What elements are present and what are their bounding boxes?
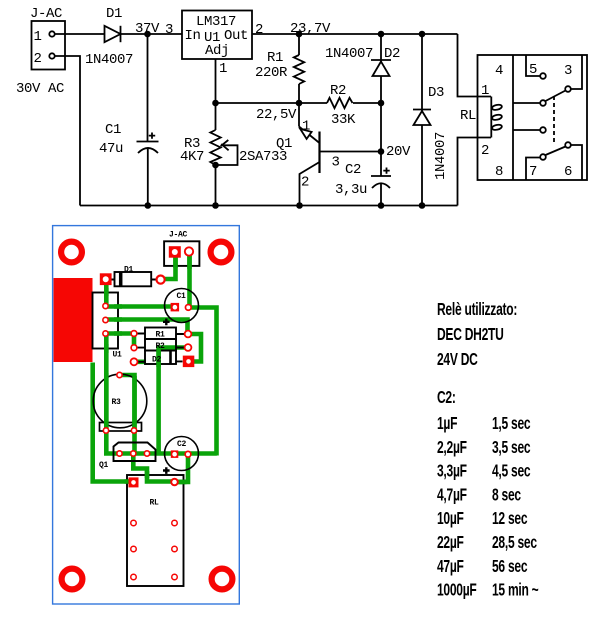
svg-text:4: 4: [495, 63, 503, 79]
svg-text:3,3u: 3,3u: [335, 182, 367, 198]
wire pin1 to D1: [55, 33, 105, 35]
diode D1: [105, 26, 121, 42]
capacitor C1 curved plate: [138, 148, 158, 153]
svg-text:1N4007: 1N4007: [85, 52, 133, 68]
svg-text:1µF: 1µF: [437, 414, 457, 434]
svg-text:R2: R2: [330, 83, 346, 99]
node D2 bottom: [378, 100, 385, 107]
capacitor C1 plus sign: [149, 133, 155, 139]
mounting hole top-left: [61, 242, 82, 263]
relay pin 5 bracket: [526, 55, 540, 76]
svg-text:RL: RL: [460, 108, 476, 124]
svg-text:In: In: [185, 28, 201, 44]
svg-text:Q1: Q1: [99, 461, 109, 470]
mounting hole top-right: [211, 242, 232, 263]
trace left rail to RL square: [93, 363, 134, 482]
svg-text:4,5 sec: 4,5 sec: [492, 461, 531, 481]
trace C1 to right rail: [188, 308, 217, 456]
pin 2 circle: [49, 53, 54, 58]
svg-text:20V: 20V: [386, 144, 411, 160]
svg-text:3: 3: [564, 63, 572, 79]
svg-text:C2: C2: [177, 440, 187, 449]
svg-text:24V DC: 24V DC: [437, 350, 478, 370]
transistor Q1 base wire: [320, 151, 382, 153]
trace R1 left to R2 left: [132, 334, 137, 349]
trace overlay RL entries: [125, 471, 187, 482]
svg-text:22,5V: 22,5V: [256, 107, 297, 123]
svg-text:47u: 47u: [99, 141, 123, 157]
wire C1 bottom: [147, 148, 149, 205]
silk C2 circle: [165, 437, 199, 471]
pad J-AC round: [185, 247, 193, 255]
svg-text:C2:: C2:: [437, 388, 456, 408]
node rail Q1: [296, 202, 303, 209]
node D3 top: [419, 31, 426, 38]
pad R3 top: [117, 372, 122, 377]
pad RL square: [129, 477, 139, 487]
resistor R2 zigzag: [327, 98, 353, 108]
pad J-AC square: [169, 246, 181, 258]
svg-text:2,2µF: 2,2µF: [437, 438, 467, 458]
svg-text:33K: 33K: [331, 112, 356, 128]
connector J-AC box: [32, 21, 66, 70]
wire C1 top: [147, 34, 149, 142]
svg-text:Out: Out: [224, 28, 248, 44]
node rail R3: [212, 202, 219, 209]
svg-text:1: 1: [34, 29, 42, 45]
svg-text:30V AC: 30V AC: [16, 81, 64, 97]
silk RL box: [127, 475, 184, 586]
potentiometer R3 wiper: [216, 145, 238, 165]
trace D1 to U1.1: [104, 279, 109, 307]
silk R3 tab: [100, 423, 142, 432]
capacitor C2 plus plate: [371, 175, 391, 177]
pad area red rectangle: [54, 278, 93, 362]
pad D1 square: [100, 273, 112, 285]
svg-text:220R: 220R: [255, 65, 288, 81]
node adj: [212, 100, 219, 107]
svg-text:2: 2: [481, 143, 489, 159]
resistor R3 leads: [215, 103, 217, 206]
svg-text:R1: R1: [156, 331, 166, 340]
silk J-AC box: [164, 241, 199, 266]
silk R3 circle: [93, 374, 147, 428]
pad RL round top: [171, 479, 178, 486]
svg-text:8: 8: [495, 164, 503, 180]
pad C1 square: [171, 303, 180, 312]
silk R1 box: [145, 328, 176, 340]
node R3 wiper: [212, 162, 219, 169]
pcb board outline: [53, 226, 240, 604]
svg-text:2SA733: 2SA733: [239, 149, 287, 165]
svg-text:J-AC: J-AC: [30, 6, 62, 22]
transistor Q1 emitter wire: [298, 103, 300, 127]
svg-text:1: 1: [219, 61, 227, 77]
silk D1 band: [119, 272, 123, 286]
node rail C1: [145, 202, 152, 209]
silk D2 band: [169, 351, 172, 365]
diode D2: [380, 34, 382, 103]
svg-text:2: 2: [34, 51, 42, 67]
node emitter: [296, 100, 303, 107]
trace U1.2 to R1 right: [105, 320, 188, 335]
relay pin 6 lead: [571, 145, 582, 180]
silk C1 circle: [165, 289, 199, 323]
node rail C2: [378, 202, 385, 209]
wire C2 top: [380, 103, 382, 176]
pads U1: [103, 303, 108, 308]
relay pin 3 lead: [571, 55, 582, 89]
svg-text:D2: D2: [152, 356, 162, 365]
svg-text:2: 2: [301, 175, 309, 191]
trace R3 top to R3 bottom and Q1.2: [118, 375, 135, 455]
trace Q1.2 jog to RL: [133, 454, 174, 482]
svg-text:D3: D3: [428, 85, 444, 101]
svg-text:28,5 sec: 28,5 sec: [492, 533, 537, 553]
pad D2 square: [183, 356, 195, 368]
node 23,7V: [296, 31, 303, 38]
transistor Q1 emitter arrow: [300, 129, 311, 139]
svg-text:4K7: 4K7: [180, 149, 204, 165]
pads Q1: [117, 451, 122, 456]
capacitor C1 plus plate: [137, 141, 159, 143]
relay pole 2 lead: [513, 129, 540, 131]
mounting hole bottom-right: [212, 569, 233, 590]
trace R1 right to D2 square: [189, 334, 202, 362]
svg-text:3,3µF: 3,3µF: [437, 461, 467, 481]
pad C2 round: [185, 451, 191, 457]
svg-text:12 sec: 12 sec: [492, 509, 528, 529]
svg-text:D1: D1: [106, 6, 122, 22]
node 37V: [144, 31, 151, 38]
svg-text:7: 7: [529, 164, 537, 180]
trace J-AC.1 to D1: [161, 252, 176, 280]
trace U1.1 to C1+: [105, 304, 176, 309]
trace U1.3 to R1 left: [105, 331, 137, 336]
relay coil RL: [490, 97, 492, 138]
trace R2 right drop to Q1.3: [159, 348, 188, 453]
trace overlay U1 exits: [106, 288, 122, 353]
diode D3: [421, 34, 423, 206]
svg-text:1,5 sec: 1,5 sec: [492, 414, 531, 434]
pad holes: [172, 249, 178, 255]
pad C2 square: [171, 450, 179, 458]
svg-text:R3: R3: [112, 398, 122, 407]
pads R1: [131, 331, 137, 337]
svg-text:C1: C1: [177, 292, 187, 301]
capacitor C2 plus sign: [383, 168, 389, 174]
silk lead stubs R1 R2 D2: [138, 333, 185, 336]
wire bottom rail: [80, 205, 458, 207]
svg-text:1: 1: [481, 83, 489, 99]
wire relay pin1 drop: [458, 34, 492, 97]
wire C2 bottom: [380, 183, 382, 205]
pin 1 circle: [49, 31, 54, 36]
trace overlay R2 drop through D2 box: [156, 349, 161, 368]
silk C2 plus: [163, 467, 170, 474]
regulator U1 LM317 box: [182, 11, 252, 60]
pads R2: [131, 345, 137, 351]
svg-text:1N4007: 1N4007: [325, 46, 373, 62]
trace D2 left stub: [134, 359, 146, 364]
relay contact circles: [540, 73, 546, 79]
relay contact box: [478, 55, 588, 180]
silk D2 box: [145, 351, 176, 365]
silk C1 plus: [163, 319, 170, 326]
trace emitter band: [104, 451, 217, 456]
svg-text:1N4007: 1N4007: [433, 132, 449, 180]
relay armature arms: [546, 91, 566, 102]
trace J-AC.2 to C1: [187, 252, 192, 308]
wire D1 cathode to LM317 In: [121, 33, 183, 35]
svg-text:3,5 sec: 3,5 sec: [492, 438, 531, 458]
relay pole 1 lead: [513, 102, 540, 104]
resistor R1 zigzag: [294, 55, 304, 84]
svg-text:3: 3: [165, 22, 173, 38]
pad C1 round: [185, 305, 191, 311]
node rail D3: [419, 202, 426, 209]
silk D1 body: [115, 272, 152, 286]
svg-text:56 sec: 56 sec: [492, 557, 528, 577]
silk R2 box: [145, 339, 176, 351]
svg-text:Adj: Adj: [205, 43, 229, 59]
pads RL lower: [131, 520, 137, 526]
svg-text:2: 2: [255, 22, 263, 38]
resistor R1 leads: [298, 34, 300, 103]
svg-text:U1: U1: [113, 351, 123, 360]
svg-text:R2: R2: [156, 342, 166, 351]
wire LM317 Out to relay corner: [252, 33, 458, 35]
svg-text:D1: D1: [124, 266, 134, 275]
svg-text:Relè utilizzato:: Relè utilizzato:: [437, 300, 517, 320]
svg-text:R1: R1: [267, 50, 283, 66]
svg-text:3: 3: [332, 155, 340, 171]
svg-text:1000µF: 1000µF: [437, 580, 477, 600]
pads R3 bottom: [103, 428, 108, 433]
svg-text:8 sec: 8 sec: [492, 485, 521, 505]
resistor R3 zigzag: [210, 130, 220, 165]
node 20V: [378, 148, 385, 155]
svg-text:C2: C2: [345, 162, 361, 178]
svg-text:DEC DH2TU: DEC DH2TU: [437, 325, 504, 345]
svg-text:5: 5: [529, 62, 537, 78]
trace C2 minus to RL round: [176, 454, 188, 482]
svg-text:15 min ~: 15 min ~: [492, 580, 539, 600]
transistor Q1 base bar: [318, 132, 320, 174]
svg-text:J-AC: J-AC: [169, 231, 188, 240]
svg-text:10µF: 10µF: [437, 509, 464, 529]
wire pin2 down to bottom rail: [55, 56, 80, 206]
silk Q1 outline: [114, 443, 156, 462]
node D2 top: [378, 31, 385, 38]
relay link dashed: [553, 96, 555, 144]
relay pin 7 bracket: [526, 158, 540, 181]
capacitor C2 curved plate: [372, 183, 390, 188]
svg-text:C1: C1: [105, 122, 121, 138]
pad D2 left: [131, 358, 138, 365]
svg-text:4,7µF: 4,7µF: [437, 485, 467, 505]
trace overlay J-AC exits: [173, 252, 178, 269]
wire relay pin2 return: [458, 138, 492, 206]
pad D1 round: [157, 276, 165, 284]
svg-text:47µF: 47µF: [437, 557, 464, 577]
trace U1.3 down to Q1.1: [104, 332, 109, 454]
svg-text:RL: RL: [150, 499, 160, 508]
svg-text:37V: 37V: [135, 21, 160, 37]
trace overlay R3 circle crossings: [106, 373, 134, 433]
wire 22,5V rail: [216, 102, 382, 104]
mounting hole bottom-left: [62, 569, 83, 590]
svg-text:23,7V: 23,7V: [290, 21, 331, 37]
silk U1 box: [93, 293, 119, 349]
svg-text:22µF: 22µF: [437, 533, 464, 553]
wire Adj pin down: [215, 59, 217, 103]
svg-text:6: 6: [564, 164, 572, 180]
svg-text:1: 1: [302, 119, 310, 135]
svg-text:D2: D2: [384, 46, 400, 62]
transistor Q1 collector wire: [300, 162, 320, 206]
